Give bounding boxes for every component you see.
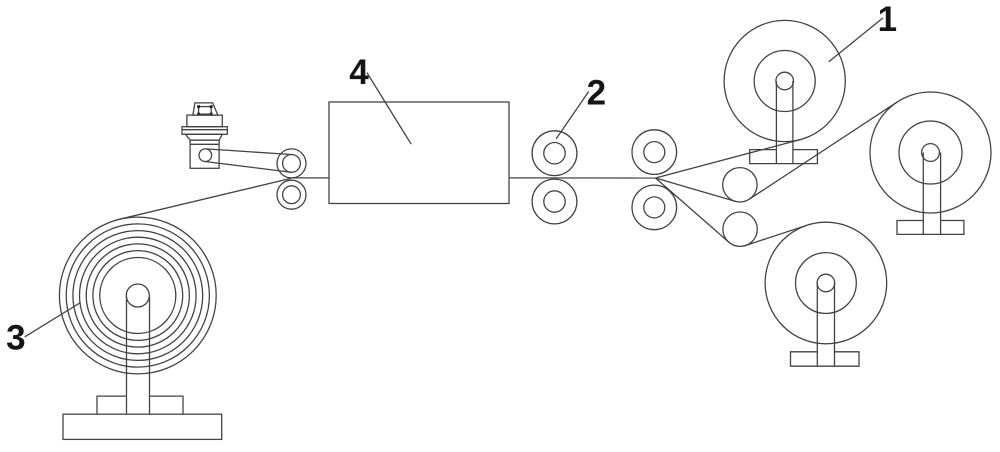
lower nip roller outer: [277, 180, 306, 209]
bottom reel base: [791, 352, 860, 366]
coil ring 1 of reel 3: [59, 217, 216, 374]
svg-text:4: 4: [349, 53, 369, 92]
coil pedestal middle step: [97, 396, 183, 414]
belt line 2 head to roller: [206, 149, 293, 155]
coil shaft end circle: [126, 284, 149, 307]
upper nip roller outer: [277, 149, 306, 178]
reel 1 shaft circle: [776, 72, 794, 90]
svg-text:2: 2: [587, 74, 606, 113]
pair 2b lower roller outer: [632, 185, 677, 230]
pair 2a lower roller outer: [532, 179, 577, 224]
leader line of label 2: [556, 92, 589, 139]
leader line of label 3: [25, 303, 81, 337]
coil shaft right side: [149, 297, 151, 415]
right reel shaft right side: [940, 153, 942, 235]
wire web nip to box 4: [292, 177, 330, 179]
head drive circle: [199, 149, 212, 162]
right reel base: [897, 221, 964, 235]
reel 1 outer circle: [724, 20, 845, 141]
bottom reel shaft left side: [816, 283, 818, 366]
process box 4: [329, 102, 509, 204]
lower nip roller inner: [283, 186, 301, 204]
right reel hub circle: [899, 121, 962, 184]
bottom reel shaft circle: [817, 274, 835, 292]
head body top line: [190, 143, 219, 145]
bottom reel shaft right side: [834, 283, 836, 366]
bottom reel outer circle: [765, 222, 887, 344]
coil ring 3 of reel 3: [73, 231, 203, 361]
bottom reel hub circle: [796, 253, 857, 314]
reel 1 base: [750, 150, 818, 164]
head cap trapezoid: [193, 103, 218, 115]
wire web junction to upper idler: [656, 178, 736, 201]
belt line 1 head to roller: [205, 162, 291, 173]
reel 1 hub circle: [754, 51, 815, 112]
pair 2b upper roller outer: [632, 130, 677, 175]
right reel outer circle: [870, 92, 991, 213]
coil hub circle: [100, 258, 176, 334]
pair 2b lower roller inner: [644, 197, 665, 218]
head flange: [182, 127, 227, 135]
head body: [190, 140, 219, 168]
coil pedestal base: [63, 414, 222, 439]
pair 2a lower roller inner: [544, 191, 565, 212]
upper idler roller: [723, 168, 757, 202]
coil ring 5 of reel 3: [86, 244, 189, 347]
right reel shaft circle: [922, 144, 940, 162]
coil shaft left side: [126, 297, 128, 415]
wire web junction to lower idler: [656, 178, 729, 242]
wire web box 4 to junction: [509, 177, 656, 179]
leader line of label 1: [829, 18, 883, 62]
pair 2a upper roller inner: [544, 143, 565, 164]
coil ring 4 of reel 3: [80, 237, 197, 354]
coil ring 2 of reel 3: [66, 224, 209, 367]
reel 1 shaft right side: [792, 81, 794, 164]
lower idler roller: [723, 212, 757, 246]
wire web from coil 3 to nip rollers: [120, 178, 292, 219]
head neck trapezoid: [186, 134, 223, 140]
svg-text:3: 3: [6, 319, 25, 358]
wire web junction to reel 1 bottom: [656, 140, 801, 178]
head upper block: [187, 115, 222, 127]
leader line of label 4: [367, 73, 411, 145]
upper nip roller inner: [283, 155, 301, 173]
coil ring 6 of reel 3: [93, 251, 183, 341]
pair 2b upper roller inner: [644, 142, 665, 163]
wire web lower idler to bottom reel: [746, 225, 807, 245]
pair 2a upper roller outer: [532, 131, 577, 176]
reel 1 shaft left side: [775, 81, 777, 164]
wire web upper idler to right reel: [749, 102, 897, 199]
head flange mid line: [182, 129, 227, 131]
head cap inner rect: [199, 107, 212, 115]
right reel shaft left side: [922, 153, 924, 235]
